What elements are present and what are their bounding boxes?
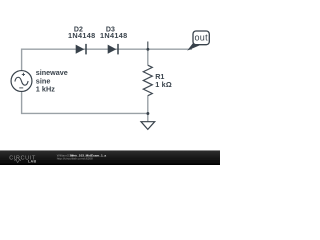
svg-text:1N4148: 1N4148 [100,31,127,40]
svg-text:1 kHz: 1 kHz [36,84,55,93]
svg-text:1N4148: 1N4148 [68,31,95,40]
svg-text:out: out [194,33,208,43]
svg-text:http://circuitlab.com/c6268: http://circuitlab.com/c6268 [57,157,93,161]
svg-text:1 kΩ: 1 kΩ [155,80,172,89]
svg-text:LAB: LAB [28,159,37,163]
